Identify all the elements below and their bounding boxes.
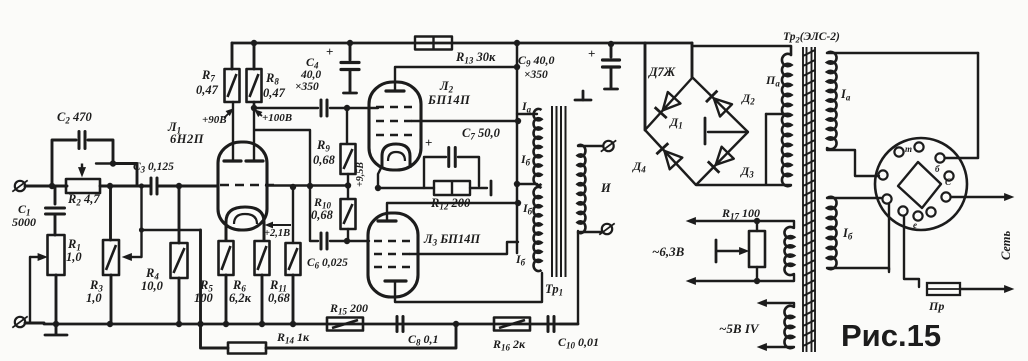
transformer Tr1 primary lower [534, 187, 542, 271]
potentiometer R1 [48, 235, 65, 275]
wire feedback from secondary [560, 231, 578, 324]
resistor R11 [286, 243, 301, 275]
resistor R12 [434, 181, 470, 195]
svg-text:Пр: Пр [928, 299, 944, 313]
wire rail to bridge plus [644, 43, 647, 130]
tube L1 cathodes [226, 207, 264, 242]
resistor R7 [225, 69, 240, 102]
resistor R10 [341, 199, 356, 229]
tube L1 anodes [224, 159, 263, 162]
wire +100V line [254, 102, 318, 108]
wire R17 bottom [756, 267, 758, 281]
svg-text:C7 50,0: C7 50,0 [462, 126, 501, 142]
input terminal In2 [12, 316, 27, 327]
wire secondary top [578, 145, 603, 147]
socket center hole [898, 162, 941, 208]
tube L3 grid dashes [374, 241, 410, 267]
svg-text:+: + [326, 44, 333, 59]
wire R3 bottom to bus [110, 275, 113, 325]
chassis mark left [45, 334, 67, 337]
potentiometer R3 [103, 240, 119, 275]
wire C4 top [349, 43, 352, 60]
node phase splitter grid [345, 182, 351, 188]
wire C7 right leg [458, 157, 479, 186]
wire R17 top [756, 221, 758, 231]
svg-text:1,0: 1,0 [86, 291, 102, 305]
wire R1 bottom through bus to chassis [55, 275, 58, 334]
node wiper/cathode line [139, 227, 144, 232]
svg-text:+: + [425, 135, 432, 150]
wire terminal to ground bus [25, 322, 44, 325]
wire grid-return down to lower feedback line [201, 230, 229, 348]
wire R6 to bus [261, 275, 264, 325]
wire HV tap [765, 114, 767, 184]
wire 6,3V bottom [692, 274, 794, 281]
node anode L3 [515, 200, 521, 206]
svg-text:C9 40,0: C9 40,0 [518, 53, 555, 69]
resistor R9 [341, 144, 356, 174]
resistor R5 [219, 241, 234, 275]
wire C2 right leg [88, 140, 113, 161]
wire bridge top to HV top [692, 46, 791, 55]
capacitor C3 [151, 178, 157, 194]
chassis mark R12 [490, 181, 493, 195]
wire C1 top leg [54, 186, 57, 204]
capacitor C7 [449, 148, 456, 167]
svg-text:С: С [945, 177, 952, 187]
capacitor C2 [79, 132, 85, 149]
svg-text:R13 30к: R13 30к [455, 50, 496, 66]
wire fuse to mains line2 [960, 288, 1006, 291]
wire R5 to bus [225, 275, 228, 325]
diode D3 [696, 132, 748, 185]
transformer Tr2 winding 6,3V [784, 227, 794, 275]
wire socket to fuse [904, 216, 919, 287]
svg-text:0,47: 0,47 [263, 86, 286, 100]
svg-text:C2 470: C2 470 [57, 110, 92, 126]
svg-text:Рис.15: Рис.15 [841, 318, 941, 353]
svg-text:б: б [935, 164, 940, 174]
svg-text:C6 0,025: C6 0,025 [307, 257, 348, 271]
svg-text:100: 100 [194, 291, 214, 305]
transformer Tr1 primary upper [534, 109, 542, 185]
wire R11 to bus [292, 275, 295, 325]
svg-text:+: + [588, 46, 595, 61]
wire up to socket pin [888, 204, 890, 270]
wire C9 top [610, 44, 613, 57]
capacitor C9 [603, 60, 620, 67]
node bus gnd [53, 321, 59, 327]
chassis mark R17 wiper [715, 240, 718, 262]
wire lower feedback right [266, 324, 456, 348]
tube L2 envelope [369, 82, 421, 170]
wire C2 left leg [52, 140, 76, 186]
resistor R6 [255, 241, 270, 275]
transformer Tr2 winding 5V [784, 306, 794, 348]
wire tap Ib1 [517, 183, 537, 185]
wire C5 to L2 grid [330, 107, 378, 109]
svg-text:0,68: 0,68 [311, 208, 334, 222]
wire R1 wiper to bus [29, 257, 31, 322]
wire C4 bottom [349, 70, 352, 92]
svg-text:10,0: 10,0 [141, 279, 164, 293]
tube L2 grid dashes [376, 107, 412, 135]
wire winding-a bottom to socket [827, 148, 879, 176]
svg-text:6,2к: 6,2к [229, 291, 252, 305]
node rail Tr1 feed [514, 40, 520, 46]
wire 5V top [763, 303, 794, 307]
node input junction [49, 183, 55, 189]
chassis mark bridge [704, 118, 707, 144]
resistor R15 [327, 318, 363, 331]
wire winding-b top to socket [827, 197, 881, 199]
wire tap Ia [517, 113, 537, 115]
wire socket to mains line1 [951, 196, 1006, 199]
node L2 cathode [375, 185, 381, 191]
input terminal In1 [12, 180, 27, 191]
diode D2 [693, 78, 749, 133]
svg-text:Сеть: Сеть [999, 230, 1013, 260]
wire bridge top to rail [691, 43, 694, 78]
wire down to socket pin [945, 53, 978, 158]
transformer Tr2 primary winding a [827, 52, 837, 149]
svg-text:C8 0,1: C8 0,1 [408, 332, 439, 348]
wire bridge minus to chassis [708, 131, 748, 133]
wire C9 bottom [610, 67, 613, 88]
resistor R8 [247, 69, 262, 102]
wire R4 bottom to bus [178, 278, 181, 325]
wire 5V bottom [763, 346, 794, 348]
node R11 top [290, 184, 296, 190]
ground / feedback bus wire [44, 323, 578, 326]
output terminal Out1 [601, 140, 616, 151]
node tap [514, 181, 520, 187]
svg-text:0,47: 0,47 [196, 83, 219, 97]
wire down to R4 [178, 186, 181, 243]
resistor R13 [415, 37, 452, 50]
svg-text:C10 0,01: C10 0,01 [558, 335, 599, 351]
tube L3 anode [378, 219, 396, 222]
wire feedback from anode node via C6 [255, 130, 318, 241]
wire L2 cathode down [378, 166, 382, 188]
wire bridge bottom to HV winding [696, 184, 791, 186]
node rail C4 [347, 40, 353, 46]
tube L3 envelope [368, 213, 418, 297]
transformer Tr1 secondary [578, 145, 586, 233]
wire R7 top to rail [231, 43, 234, 69]
wire winding-b bottom [827, 268, 889, 272]
tube L1 envelope [218, 142, 267, 230]
fuse Pr [927, 283, 960, 295]
svg-text:Л3 БП14П: Л3 БП14П [423, 232, 481, 248]
node C2/R2 wiper junction [110, 160, 116, 166]
capacitor C6 [321, 233, 327, 249]
wire C7 left leg [424, 157, 446, 188]
socket plate [875, 138, 967, 230]
wire Tr1 primary feed [516, 43, 519, 253]
transformer Tr2 core [803, 47, 815, 352]
transformer Tr1 core [552, 106, 566, 277]
svg-text:×350: ×350 [295, 81, 319, 93]
transformer Tr2 HV winding [782, 54, 792, 186]
socket pins [878, 142, 953, 220]
resistor R4 [171, 243, 188, 278]
tube L2 cathode [382, 144, 410, 168]
chassis mark C4 [344, 92, 357, 95]
chassis mark core [575, 91, 591, 100]
wire B+ rail [232, 42, 692, 45]
node anode L2 on Tr1 feed [514, 64, 520, 70]
node bus junctions [107, 321, 113, 327]
node +100V [251, 105, 257, 111]
chassis mark C9 [605, 88, 618, 91]
node C5/R9 [344, 105, 350, 111]
svg-text:И: И [600, 181, 612, 195]
capacitor C5 [321, 100, 327, 116]
output terminal Out2 [599, 223, 614, 234]
wire L2 screen to Tr1 feed [412, 120, 518, 122]
svg-text:т: т [905, 144, 912, 154]
svg-text:+9,5В: +9,5В [355, 162, 366, 187]
svg-text:+2,1В: +2,1В [264, 228, 290, 239]
svg-text:+100В: +100В [262, 112, 292, 124]
wire 6,3V top [692, 221, 794, 228]
potentiometer R17 [749, 231, 765, 267]
diode D1 [645, 78, 693, 131]
node input/wiper [139, 183, 144, 188]
tube L2 anode [386, 89, 404, 92]
node rail R8 [251, 40, 257, 46]
wire L3 anode to Tr1 [387, 203, 518, 221]
svg-text:1,0: 1,0 [66, 250, 82, 264]
node R4 top junction [176, 183, 182, 189]
wire R9 to grid node [347, 174, 349, 199]
wire L1 grid-b to node [266, 184, 348, 186]
wire C3 to L1 grid [158, 185, 218, 188]
svg-text:БП14П: БП14П [427, 93, 471, 107]
wire R12 to chassis [470, 187, 487, 189]
wire input line down to R3 [109, 186, 112, 240]
svg-text:Тр2(ЭЛС-2): Тр2(ЭЛС-2) [783, 31, 840, 45]
svg-text:40,0: 40,0 [300, 69, 321, 81]
node L3 grid [344, 238, 350, 244]
node crossing grid line [307, 183, 313, 189]
wire L1 anode-b [253, 102, 255, 161]
svg-text:C3 0,125: C3 0,125 [133, 161, 174, 175]
svg-text:0,68: 0,68 [268, 291, 291, 305]
capacitor C10 [548, 317, 554, 332]
capacitor C8 [397, 317, 403, 332]
potentiometer R2 [66, 179, 100, 193]
wire HV tap to winding [766, 113, 786, 115]
svg-text:R15 200: R15 200 [329, 301, 368, 317]
svg-text:~6,3В: ~6,3В [652, 244, 685, 259]
resistor R14 [228, 343, 266, 354]
capacitor C4 [341, 63, 359, 70]
tube L1 grid dashes [220, 184, 274, 187]
node rail C9 [608, 41, 614, 47]
wire grid-return line [142, 229, 201, 231]
node R3 top junction [107, 183, 113, 189]
diode D4 [645, 130, 696, 185]
svg-text:0,68: 0,68 [313, 153, 336, 167]
wire winding-a top to socket [827, 52, 978, 55]
wire R2 wiper [96, 162, 113, 164]
wire R2 to C3 [100, 185, 150, 188]
svg-text:5000: 5000 [12, 215, 36, 229]
wire R10 to C6 line [347, 229, 349, 241]
svg-text:R17 100: R17 100 [721, 206, 760, 222]
resistor R16 [494, 318, 530, 331]
svg-text:+90В: +90В [202, 114, 227, 126]
svg-text:~5В IV: ~5В IV [719, 321, 760, 336]
wire input node to R3 wiper [140, 186, 142, 257]
wire secondary bottom [578, 231, 601, 233]
wire input to R2 [25, 185, 67, 188]
wire L3 cathode to Tr1 primary bottom [395, 273, 542, 302]
wire L1 anode-a to R7 [232, 102, 234, 161]
capacitor C1 [46, 208, 65, 214]
svg-text:Д7Ж: Д7Ж [648, 65, 676, 79]
wire cathode to R12 [378, 187, 434, 189]
svg-text:R2 4,7: R2 4,7 [67, 192, 100, 208]
tube L3 cathode [385, 279, 406, 282]
svg-text:×350: ×350 [524, 69, 548, 81]
svg-text:е: е [913, 220, 917, 230]
wire L2 anode to Tr1 [395, 67, 517, 91]
wire C6 to L3 grid [330, 240, 369, 242]
wire C1 to R1 [54, 214, 57, 235]
node screen L2 [515, 118, 521, 124]
wire grid node to R11 [292, 187, 294, 243]
wire R8 top to rail [253, 43, 256, 69]
wire L3 screen to Tr1 feed [410, 242, 518, 254]
wire node to R9 [346, 108, 348, 144]
transformer Tr2 primary winding b [827, 197, 837, 269]
wire wiper node down to input line [113, 164, 137, 187]
svg-text:6Н2П: 6Н2П [170, 132, 205, 146]
